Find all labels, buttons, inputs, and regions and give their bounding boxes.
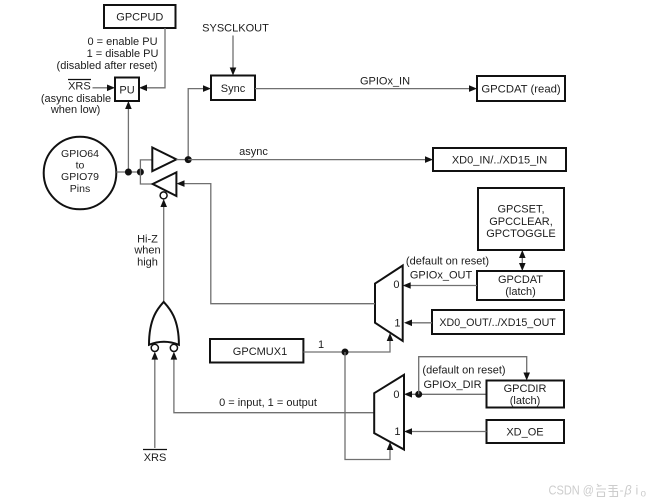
wire XD0_OUT to output mux input 1 (arrow left) bbox=[404, 320, 432, 327]
junction dot (pin / buffers branch) bbox=[137, 169, 144, 176]
svg-text:GPIO79: GPIO79 bbox=[61, 171, 99, 183]
pin circle GPIO64 to GPIO79 Pins bbox=[44, 137, 117, 210]
svg-text:0 = input, 1 = output: 0 = input, 1 = output bbox=[219, 397, 317, 409]
svg-text:1: 1 bbox=[394, 318, 400, 330]
wire GPIOx_DIR node feedback into GPCDIR top (arrow down) bbox=[419, 357, 530, 395]
svg-text:o: o bbox=[641, 489, 647, 500]
wire GPCMUX1 to mux selects bbox=[303, 333, 393, 352]
junction dot (GPIOx_DIR node) bbox=[415, 391, 422, 398]
wire buffer output to async node bbox=[176, 159, 188, 161]
svg-text:XD0_IN/../XD15_IN: XD0_IN/../XD15_IN bbox=[452, 155, 547, 167]
wire Sync to GPCDAT(read) (arrow right) bbox=[255, 85, 477, 92]
wire junction up to input buffer bbox=[140, 160, 152, 172]
svg-text:GPIO64: GPIO64 bbox=[61, 148, 99, 160]
watermark CSDN bbox=[549, 484, 647, 500]
net label XRS (bottom, active-low overline) bbox=[143, 450, 167, 465]
svg-text:1 = disable PU: 1 = disable PU bbox=[87, 48, 159, 60]
svg-text:-: - bbox=[620, 484, 624, 498]
output mux (upper trapezoid) bbox=[375, 266, 403, 341]
svg-text:XD0_OUT/../XD15_OUT: XD0_OUT/../XD15_OUT bbox=[439, 317, 556, 329]
register box GPCDAT (latch) bbox=[477, 271, 564, 300]
svg-text:Pins: Pins bbox=[70, 183, 90, 195]
svg-text:(default on reset): (default on reset) bbox=[422, 365, 505, 377]
output buffer (triangle left, with enable bubble) bbox=[153, 172, 177, 199]
wire XRS up to OR gate left input (arrow up into bubble) bbox=[152, 352, 159, 448]
wire pin to junctions bbox=[116, 171, 140, 173]
junction dot (pin / PU branch) bbox=[125, 169, 132, 176]
svg-text:when: when bbox=[133, 245, 160, 257]
junction dot (select fanout) bbox=[342, 349, 349, 356]
wire select down to direction mux (arrow up into lower mux) bbox=[345, 352, 393, 460]
input buffer (triangle right) bbox=[152, 148, 176, 172]
junction dot (async node) bbox=[185, 156, 192, 163]
register box GPCPUD bbox=[104, 5, 176, 28]
wire XD_OE to direction mux input 1 (arrow left) bbox=[404, 428, 487, 435]
wire pin node up into PU bottom (arrow up) bbox=[125, 101, 132, 172]
wire direction mux output to OR gate right input (arrow up into bubble) bbox=[171, 352, 375, 413]
svg-text:async: async bbox=[239, 146, 268, 158]
svg-text:(default on reset): (default on reset) bbox=[406, 256, 489, 268]
svg-text:XRS: XRS bbox=[144, 452, 167, 464]
svg-text:0 = enable PU: 0 = enable PU bbox=[87, 36, 157, 48]
label Hi-Z when high bbox=[133, 233, 160, 268]
svg-text:GPCDAT (read): GPCDAT (read) bbox=[481, 84, 561, 96]
wire junction down to output buffer apex bbox=[140, 172, 152, 184]
register box XD0_IN/../XD15_IN bbox=[433, 148, 566, 171]
svg-text:0: 0 bbox=[393, 389, 399, 401]
wire GPCSET to GPCDAT latch (double arrow) bbox=[519, 250, 526, 271]
wire output mux to output buffer (left, up, arrow left into buffer) bbox=[177, 180, 376, 303]
OR gate (pointed arch with two bubbled inputs) bbox=[149, 302, 179, 352]
wire from output-buffer node up and into Sync left (arrow right) bbox=[188, 85, 211, 159]
direction mux (lower trapezoid) bbox=[374, 375, 404, 450]
register box GPCDAT (read) bbox=[477, 76, 565, 101]
register box XD0_OUT/../XD15_OUT bbox=[432, 310, 564, 334]
svg-text:SYSCLKOUT: SYSCLKOUT bbox=[202, 23, 269, 35]
svg-text:GPCDAT: GPCDAT bbox=[498, 274, 543, 286]
register box GPCDIR (latch) bbox=[487, 381, 565, 408]
svg-text:when low): when low) bbox=[50, 104, 101, 116]
svg-text:i: i bbox=[636, 484, 639, 498]
svg-text:(latch): (latch) bbox=[505, 286, 536, 298]
pull-up block PU bbox=[115, 78, 139, 102]
wire OR gate output up to buffer enable bubble (arrow up) bbox=[160, 199, 167, 302]
wire GPCPUD to PU (down then left, arrow into PU right) bbox=[139, 28, 165, 91]
wire GPCDAT latch to output mux input 0 (arrow left) bbox=[403, 282, 477, 289]
svg-text:GPCPUD: GPCPUD bbox=[116, 12, 163, 24]
svg-text:0: 0 bbox=[393, 279, 399, 291]
svg-text:PU: PU bbox=[119, 85, 134, 97]
svg-text:1: 1 bbox=[318, 339, 324, 351]
net label XRS (top, active-low overline) bbox=[68, 80, 91, 93]
svg-text:XD_OE: XD_OE bbox=[506, 427, 543, 439]
svg-text:(latch): (latch) bbox=[510, 395, 541, 407]
svg-text:GPIOx_IN: GPIOx_IN bbox=[360, 76, 410, 88]
svg-text:Hi-Z: Hi-Z bbox=[137, 233, 158, 245]
wire XRS to PU with arrow bbox=[93, 85, 116, 92]
svg-text:(disabled after reset): (disabled after reset) bbox=[57, 60, 158, 72]
svg-text:GPCSET,: GPCSET, bbox=[497, 204, 544, 216]
svg-text:GPCMUX1: GPCMUX1 bbox=[233, 346, 287, 358]
svg-text:to: to bbox=[76, 160, 85, 172]
svg-text:GPIOx_OUT: GPIOx_OUT bbox=[410, 270, 473, 282]
register box GPCSET, GPCCLEAR, GPCTOGGLE bbox=[478, 188, 564, 250]
svg-text:1: 1 bbox=[394, 426, 400, 438]
register box XD_OE bbox=[487, 420, 565, 443]
svg-text:β: β bbox=[624, 484, 632, 498]
svg-text:GPCCLEAR,: GPCCLEAR, bbox=[489, 216, 553, 228]
svg-text:high: high bbox=[137, 257, 158, 269]
svg-text:GPCTOGGLE: GPCTOGGLE bbox=[486, 228, 555, 240]
register box GPCMUX1 bbox=[210, 339, 303, 363]
svg-text:CSDN @: CSDN @ bbox=[549, 484, 595, 498]
wire SYSCLKOUT down into Sync (arrow down) bbox=[230, 36, 237, 76]
svg-text:XRS: XRS bbox=[68, 81, 91, 93]
sync block Sync bbox=[211, 76, 255, 101]
svg-text:GPCDIR: GPCDIR bbox=[504, 383, 547, 395]
wire GPCDIR latch to direction mux input 0 (arrow left) bbox=[404, 391, 487, 398]
svg-text:Sync: Sync bbox=[221, 83, 246, 95]
svg-text:GPIOx_DIR: GPIOx_DIR bbox=[423, 379, 481, 391]
wire async to XD0_IN (arrow right) bbox=[188, 156, 433, 163]
